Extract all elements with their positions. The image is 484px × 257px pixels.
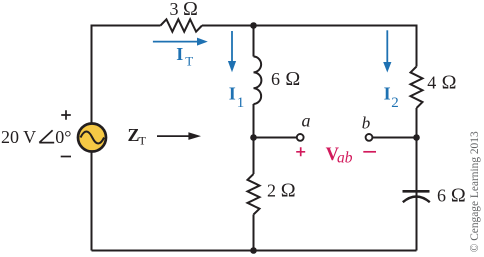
wire right lower <box>416 108 418 251</box>
svg-text:© Cengage Learning 2013: © Cengage Learning 2013 <box>469 131 481 252</box>
svg-text:I: I <box>384 84 391 104</box>
wire left lower <box>91 152 93 251</box>
svg-text:ab: ab <box>337 150 353 167</box>
svg-text:20 V: 20 V <box>1 127 36 147</box>
arrow IT <box>153 41 197 43</box>
wire top-right segment <box>202 25 417 27</box>
svg-text:3Ω: 3Ω <box>170 0 198 20</box>
junction middle at stub a <box>250 134 257 141</box>
wire middle upper <box>253 26 255 57</box>
node b terminal circle <box>366 134 373 141</box>
wire middle between inductor and resistor <box>253 104 255 174</box>
source plus sign <box>61 110 71 120</box>
arrow I2 <box>386 30 388 63</box>
source sine wave <box>81 132 105 144</box>
arrow ZT <box>157 135 190 137</box>
junction top middle <box>250 22 257 29</box>
label minus of Vab <box>363 151 376 153</box>
svg-text:a: a <box>302 111 311 131</box>
svg-text:4Ω: 4Ω <box>427 72 456 94</box>
resistor R 3ohm <box>161 19 203 31</box>
wire top-left segment <box>92 25 161 27</box>
capacitor C 6ohm top plate <box>403 190 430 193</box>
svg-text:I: I <box>229 84 236 104</box>
wire stub from node b <box>372 137 416 139</box>
svg-text:6Ω: 6Ω <box>437 184 466 206</box>
inductor L 6ohm <box>254 57 262 105</box>
svg-text:0°: 0° <box>55 127 71 147</box>
wire bottom <box>92 250 417 252</box>
junction right at stub b <box>413 134 420 141</box>
svg-text:1: 1 <box>237 95 245 111</box>
wire stub to node a <box>254 137 297 139</box>
node a terminal circle <box>297 134 304 141</box>
wire middle lower <box>253 215 255 251</box>
capacitor C 6ohm curved plate <box>403 197 430 203</box>
angle symbol of 20V label <box>39 130 54 142</box>
source V1 20V <box>78 124 106 152</box>
resistor R 2ohm <box>248 174 260 215</box>
arrow I1 <box>231 31 233 62</box>
source minus sign <box>61 156 71 158</box>
svg-text:T: T <box>139 133 147 147</box>
label plus of Vab <box>296 147 305 156</box>
svg-text:6Ω: 6Ω <box>271 68 300 90</box>
wire right upper <box>416 25 418 67</box>
svg-text:2Ω: 2Ω <box>267 179 296 201</box>
resistor R 4ohm <box>411 67 423 109</box>
svg-text:b: b <box>362 114 371 133</box>
wire left upper <box>91 25 93 124</box>
svg-text:T: T <box>185 54 193 69</box>
svg-text:I: I <box>176 44 183 64</box>
svg-text:2: 2 <box>391 95 399 111</box>
junction bottom middle <box>250 247 257 254</box>
